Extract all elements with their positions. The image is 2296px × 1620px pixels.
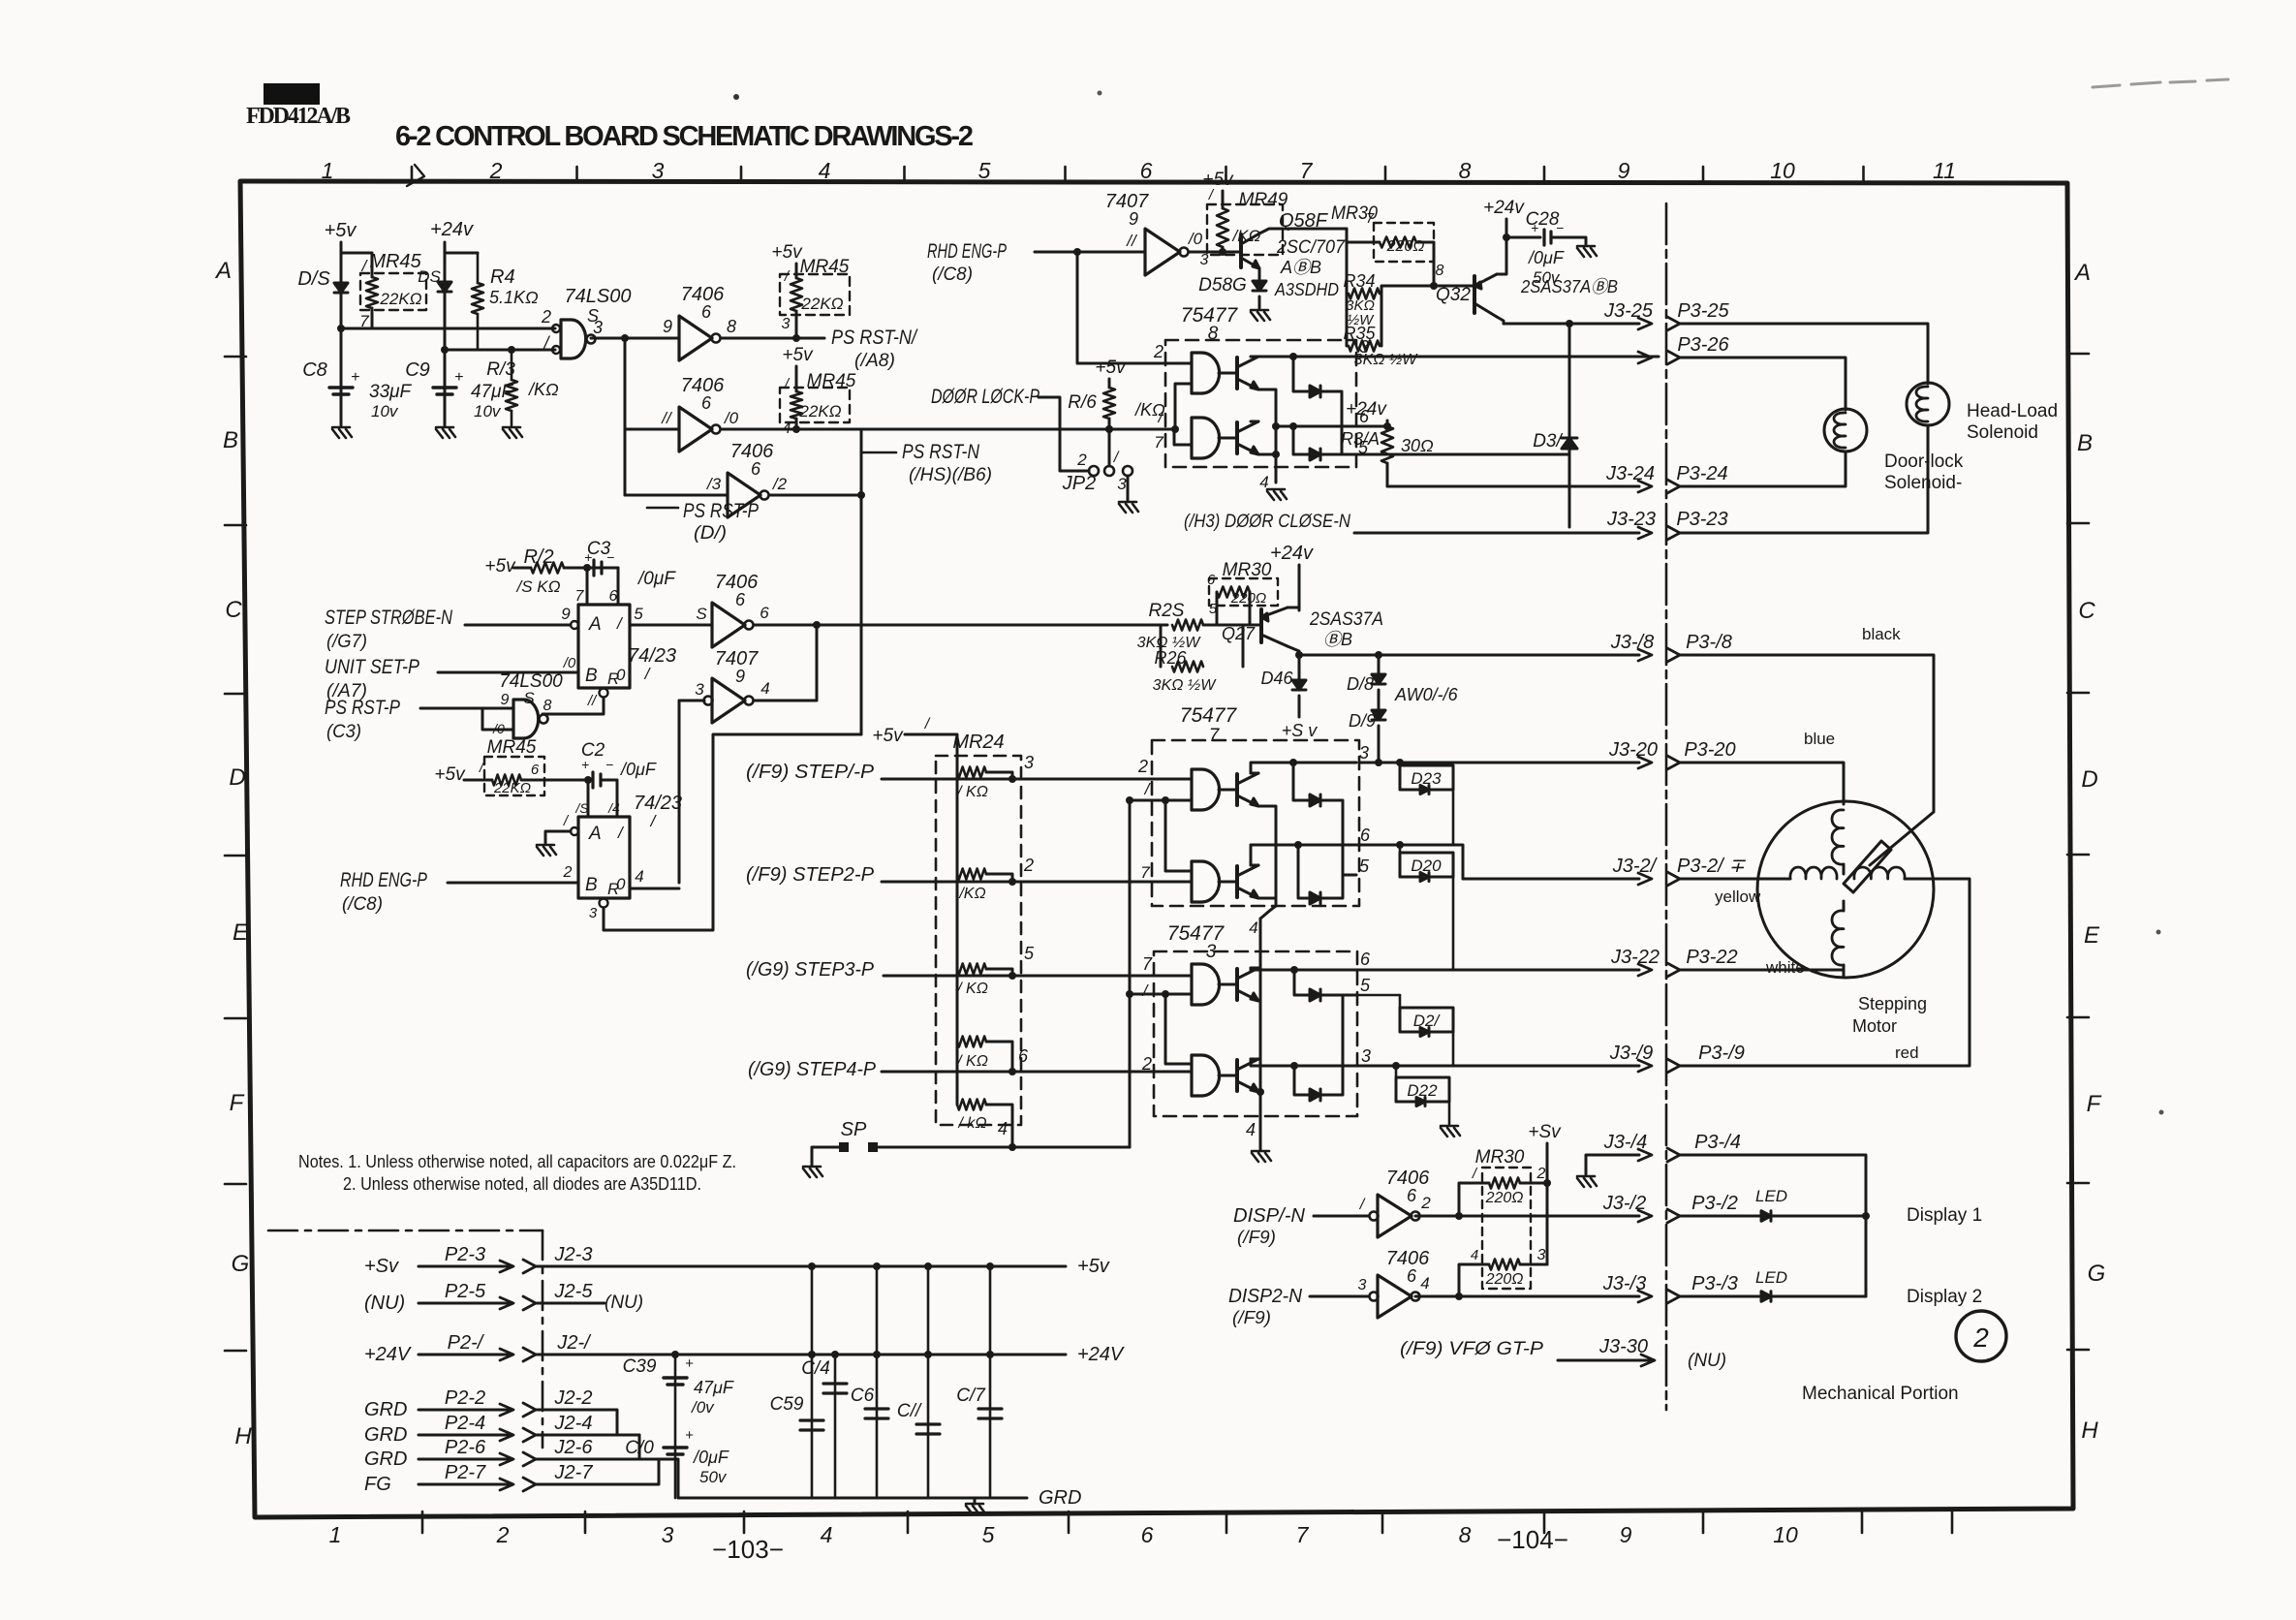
svg-text:10v: 10v xyxy=(474,402,502,421)
diode pack D21 xyxy=(1400,1008,1453,1032)
svg-text:J2-2: J2-2 xyxy=(554,1387,593,1409)
driver 75477 3 box xyxy=(1154,951,1357,1116)
svg-text:1: 1 xyxy=(322,158,334,183)
scan speck right margin 2 xyxy=(2159,1110,2164,1115)
svg-text:LED: LED xyxy=(1755,1187,1787,1205)
wire jog to gate b upper xyxy=(1165,800,1192,871)
svg-text:(C3): (C3) xyxy=(326,722,361,742)
svg-text:Q32: Q32 xyxy=(1436,285,1471,305)
ground GRD bus xyxy=(974,1498,977,1504)
inverter 7407 b (3-4) xyxy=(712,678,745,723)
wire P3-22 white to motor xyxy=(1680,970,1844,977)
svg-text:(NU): (NU) xyxy=(1688,1351,1726,1371)
svg-text:GRD: GRD xyxy=(1039,1487,1081,1509)
svg-text:6: 6 xyxy=(1141,1522,1154,1547)
svg-text:MR45: MR45 xyxy=(807,371,856,391)
svg-text:(/C8): (/C8) xyxy=(932,265,973,285)
grid tick bottom 1 xyxy=(584,1511,587,1533)
svg-text:PS RST-P: PS RST-P xyxy=(683,500,759,522)
wire P3-12 LED row xyxy=(1680,1215,1761,1218)
svg-text:9: 9 xyxy=(735,667,745,686)
svg-text:PS RST-N: PS RST-N xyxy=(902,441,980,463)
wire SP tap gate 3a xyxy=(1126,990,1133,998)
svg-text:4: 4 xyxy=(1246,1120,1256,1139)
grid tick top 6-7 xyxy=(1225,167,1227,182)
diode loop b 7477-8 xyxy=(1289,422,1297,430)
svg-text:3: 3 xyxy=(589,905,598,921)
ground J3-14 xyxy=(1586,1155,1598,1174)
grid tick top 3-4 xyxy=(740,167,743,182)
wire MR45 pin7 to bus xyxy=(371,308,374,328)
and gate 7477-8 b xyxy=(1192,418,1220,458)
svg-text:A3SDHD: A3SDHD xyxy=(1274,280,1339,299)
svg-text:−104−: −104− xyxy=(1497,1525,1568,1554)
svg-text:3: 3 xyxy=(1024,753,1034,772)
svg-text:ⒷB: ⒷB xyxy=(1323,630,1352,649)
svg-text:9: 9 xyxy=(1129,209,1138,229)
svg-text:/KΩ: /KΩ xyxy=(527,380,559,399)
svg-text:6: 6 xyxy=(760,604,769,622)
svg-text:J3-/9: J3-/9 xyxy=(1609,1043,1653,1064)
svg-text:+Sv: +Sv xyxy=(364,1256,399,1277)
wire 7407b out riser to bus xyxy=(754,625,817,701)
MR24 resistor 5 xyxy=(957,1100,986,1110)
svg-text:A: A xyxy=(2073,260,2091,286)
and gate 7477-8 a xyxy=(1192,353,1220,393)
svg-text:+5v: +5v xyxy=(872,726,904,746)
wire +5v bus xyxy=(536,1265,1066,1268)
svg-text:(/A8): (/A8) xyxy=(854,351,895,371)
svg-text:B: B xyxy=(585,666,598,686)
svg-text:P3-22: P3-22 xyxy=(1686,947,1737,968)
wire GRD merge xyxy=(536,1410,617,1435)
svg-text:6: 6 xyxy=(1360,950,1371,969)
svg-text:P3-2/ ∓: P3-2/ ∓ xyxy=(1677,856,1746,877)
grid tick left y1394 xyxy=(225,1350,246,1353)
svg-text:J3-30: J3-30 xyxy=(1598,1336,1648,1357)
svg-text:/0: /0 xyxy=(724,409,739,427)
svg-text:6: 6 xyxy=(1140,158,1153,183)
diode D23 symbol xyxy=(1420,786,1429,794)
svg-text:1: 1 xyxy=(329,1522,342,1547)
wire jog gate 3b xyxy=(1165,994,1192,1064)
node junction head-load return xyxy=(1566,320,1573,327)
net stub PS RST-N xyxy=(861,452,896,454)
svg-text:/0: /0 xyxy=(492,721,505,736)
wire J3-24 row xyxy=(1387,485,1639,488)
svg-text:+24V: +24V xyxy=(1077,1344,1125,1365)
grid tick right y1050 xyxy=(2067,1016,2089,1019)
svg-text:J3-/3: J3-/3 xyxy=(1602,1273,1646,1294)
grid tick left y1051 xyxy=(225,1017,246,1020)
svg-text:J2-7: J2-7 xyxy=(554,1462,594,1483)
svg-text:/0: /0 xyxy=(1188,230,1203,248)
svg-text:P3-25: P3-25 xyxy=(1677,300,1729,322)
svg-text:2: 2 xyxy=(496,1522,510,1547)
wire SP tap gate a xyxy=(1126,796,1133,804)
svg-text:74LS00: 74LS00 xyxy=(565,286,632,307)
svg-text:/KΩ: /KΩ xyxy=(958,886,985,902)
wire C3 pin7 stub xyxy=(583,564,591,572)
svg-text:/4: /4 xyxy=(607,800,620,816)
svg-text:C/0: C/0 xyxy=(625,1438,654,1458)
wire SP common riser xyxy=(1129,800,1132,1147)
svg-text:4: 4 xyxy=(821,1522,833,1547)
wire pin6 to R31A node xyxy=(1356,425,1387,428)
svg-text:white: white xyxy=(1765,958,1805,977)
svg-text:−: − xyxy=(1556,220,1564,235)
grid tick top 2-3 xyxy=(575,167,578,182)
diode D20 symbol xyxy=(1420,873,1429,882)
svg-text:+24v: +24v xyxy=(430,219,474,240)
grid tick right y365 xyxy=(2067,353,2089,356)
svg-text:6: 6 xyxy=(1407,1266,1417,1286)
svg-text:5: 5 xyxy=(1024,944,1035,963)
wire NAND out bus xyxy=(591,337,679,340)
svg-text:4: 4 xyxy=(783,421,791,437)
svg-text:J3-24: J3-24 xyxy=(1605,463,1655,484)
svg-text:2: 2 xyxy=(563,864,573,881)
svg-text:2SC/707: 2SC/707 xyxy=(1276,237,1346,258)
svg-text:6: 6 xyxy=(701,302,712,322)
svg-text:J3-/2: J3-/2 xyxy=(1602,1193,1646,1214)
wire Q27 emitter xyxy=(1288,607,1299,609)
svg-text:B: B xyxy=(585,875,598,895)
svg-text:J3-23: J3-23 xyxy=(1606,509,1656,530)
svg-text:D/9: D/9 xyxy=(1349,711,1376,731)
svg-text:/ kΩ: / kΩ xyxy=(957,1115,986,1132)
grid tick top 9-10 xyxy=(1702,167,1705,182)
svg-text:22KΩ: 22KΩ xyxy=(493,780,531,796)
wire DISP1-N xyxy=(1314,1215,1369,1218)
svg-text:P2-7: P2-7 xyxy=(445,1462,486,1483)
MR24 resistor 3 xyxy=(957,964,986,975)
motor coil right xyxy=(1854,867,1905,879)
grid tick bottom 6 xyxy=(1381,1511,1384,1533)
inverter 7406 a (9-8) xyxy=(679,316,712,360)
svg-text:5: 5 xyxy=(982,1522,995,1547)
boundary dash-dot mechanical xyxy=(268,1230,543,1232)
svg-text:blue: blue xyxy=(1804,730,1835,748)
circled 2 sheet mark xyxy=(1956,1311,2006,1361)
svg-text:+24v: +24v xyxy=(1270,543,1314,564)
resistor network MR30 a 220 xyxy=(1347,241,1380,244)
wire +5v to MR45 b xyxy=(795,264,798,278)
wire Q27 collector to J3-18 xyxy=(1288,646,1299,655)
svg-text:R: R xyxy=(607,670,619,688)
and gate 7477-7 a xyxy=(1192,769,1220,810)
svg-text:C: C xyxy=(225,597,242,623)
wire GRD bus xyxy=(639,1459,1027,1498)
svg-text:(/F9) VFØ GT-P: (/F9) VFØ GT-P xyxy=(1400,1339,1543,1359)
svg-text:Solenoid: Solenoid xyxy=(1967,422,2038,443)
diode D31 xyxy=(1562,438,1577,449)
svg-text:R2S: R2S xyxy=(1149,601,1185,621)
svg-text:yellow: yellow xyxy=(1715,888,1761,906)
MR30c resistor upper 220 xyxy=(1455,1212,1463,1220)
grid tick right y1393 xyxy=(2067,1349,2089,1352)
svg-text:2: 2 xyxy=(1153,342,1164,361)
MR24 resistor 1 xyxy=(957,767,986,778)
motor rotor bar xyxy=(1844,841,1891,892)
svg-text:2: 2 xyxy=(1023,856,1034,875)
svg-text:30Ω: 30Ω xyxy=(1401,436,1434,455)
wire 74123b reset to PS RST-P riser xyxy=(604,734,861,930)
svg-text:+24v: +24v xyxy=(1483,198,1525,218)
svg-text:8: 8 xyxy=(1208,324,1219,344)
scan artifact dashes top right xyxy=(2093,79,2228,87)
svg-text:AⒷB: AⒷB xyxy=(1280,258,1321,277)
svg-text:9: 9 xyxy=(561,605,571,623)
wire MR45 b to net xyxy=(795,311,798,338)
wire DISP1 out row J3-12 xyxy=(1415,1215,1639,1218)
svg-text:G: G xyxy=(2088,1261,2106,1287)
wire 7407b input from 74123b xyxy=(679,700,704,702)
svg-text:P3-20: P3-20 xyxy=(1684,739,1735,761)
wire jog to gate1 lower input xyxy=(1175,384,1192,429)
svg-text:P2-/: P2-/ xyxy=(448,1332,485,1354)
svg-text:D46: D46 xyxy=(1260,669,1293,688)
svg-text:B: B xyxy=(2077,430,2093,456)
wire PS RST-N corner riser xyxy=(860,429,863,734)
grid tick bottom 0 xyxy=(421,1511,424,1533)
svg-text:5: 5 xyxy=(634,605,643,623)
svg-text:+: + xyxy=(454,369,463,386)
svg-text:+5v: +5v xyxy=(782,345,814,365)
svg-text:P3-26: P3-26 xyxy=(1677,334,1729,356)
svg-text:(/C8): (/C8) xyxy=(342,894,383,915)
svg-text:22KΩ: 22KΩ xyxy=(800,295,843,313)
door-lock solenoid xyxy=(1824,409,1867,452)
wire reset to nand b out xyxy=(543,698,604,714)
svg-text:DS: DS xyxy=(418,267,441,286)
wire emitter b 7477-7 xyxy=(1258,897,1276,900)
svg-text:6: 6 xyxy=(1207,572,1216,588)
svg-text:Door-lock: Door-lock xyxy=(1884,452,1964,472)
wire J3-21 row xyxy=(1463,878,1639,881)
svg-text:MR30: MR30 xyxy=(1475,1147,1525,1168)
wire D46 to +5v xyxy=(1298,696,1301,717)
svg-text:2: 2 xyxy=(1972,1323,1989,1353)
grid tick top 1-2 xyxy=(411,167,414,182)
svg-text:(/HS)(/B6): (/HS)(/B6) xyxy=(909,465,992,485)
wire MR30b risers xyxy=(1216,592,1219,625)
wire P3-14 to LED rail xyxy=(1680,1155,1866,1296)
ground D22 xyxy=(1441,1126,1460,1137)
svg-text:Solenoid-: Solenoid- xyxy=(1884,473,1962,493)
wire P3-21 yellow to motor xyxy=(1680,878,1790,881)
svg-text:3: 3 xyxy=(652,158,665,183)
svg-text:+: + xyxy=(685,1355,694,1372)
svg-text:220Ω: 220Ω xyxy=(1485,1271,1524,1288)
svg-text:C8: C8 xyxy=(302,359,327,381)
svg-text:E: E xyxy=(2084,922,2100,949)
svg-text:4: 4 xyxy=(1249,919,1257,937)
svg-text:(D/): (D/) xyxy=(694,523,727,544)
svg-text:S: S xyxy=(696,605,707,623)
svg-text:Stepping: Stepping xyxy=(1858,994,1927,1013)
diode D46 xyxy=(1298,655,1301,678)
svg-text:(/H3) DØØR CLØSE-N: (/H3) DØØR CLØSE-N xyxy=(1184,512,1350,532)
svg-text:A: A xyxy=(588,614,602,635)
svg-text:6: 6 xyxy=(1407,1186,1417,1205)
svg-text:5: 5 xyxy=(1359,857,1370,876)
MR24 resistor 4 xyxy=(957,1037,986,1047)
svg-text:3: 3 xyxy=(1200,252,1209,268)
svg-text:7: 7 xyxy=(1296,1522,1310,1547)
wire 7477-7 pin6 rail xyxy=(1251,845,1463,879)
svg-text:+: + xyxy=(351,369,359,386)
svg-text:9: 9 xyxy=(663,317,672,336)
svg-text:5: 5 xyxy=(1360,976,1371,995)
svg-text:J3-/4: J3-/4 xyxy=(1603,1132,1647,1153)
grid tick right y882 xyxy=(2067,854,2089,857)
svg-text:C/4: C/4 xyxy=(801,1358,830,1379)
grid tick right y540 xyxy=(2067,522,2089,525)
svg-text:2: 2 xyxy=(1420,1194,1431,1212)
svg-text:3: 3 xyxy=(1117,475,1127,493)
svg-text:+5v: +5v xyxy=(434,764,466,785)
ground C9 xyxy=(436,427,455,438)
svg-text:/0: /0 xyxy=(563,655,576,671)
grid tick bottom 7 xyxy=(1543,1511,1546,1533)
nand gate U-74LS00 a xyxy=(552,325,560,332)
diode pack D22 xyxy=(1396,1077,1449,1102)
grid tick left y542 xyxy=(225,524,246,527)
pin 1 74123b grounded xyxy=(571,827,578,835)
svg-text:75477: 75477 xyxy=(1180,704,1238,727)
svg-text:+: + xyxy=(584,549,592,565)
and gate 7477-3 a xyxy=(1192,964,1220,1005)
svg-text:/ KΩ: / KΩ xyxy=(956,784,988,800)
pin 3 74123b reset xyxy=(600,899,608,908)
svg-text:50v: 50v xyxy=(1533,268,1561,287)
head-load solenoid xyxy=(1907,383,1949,425)
wire emitter to ground rail xyxy=(1258,389,1276,483)
svg-text:P3-/8: P3-/8 xyxy=(1686,632,1732,653)
resistor R31A 30ohm xyxy=(1383,422,1391,430)
svg-text:+: + xyxy=(685,1427,694,1444)
svg-text:R34: R34 xyxy=(1343,271,1375,291)
svg-text:F: F xyxy=(230,1090,245,1116)
wire bus to NAND pin2 xyxy=(341,327,555,330)
svg-text:8: 8 xyxy=(1436,263,1444,279)
node junction inverter chain xyxy=(621,334,629,342)
svg-text:9: 9 xyxy=(501,692,510,708)
svg-text:MR45: MR45 xyxy=(800,257,850,277)
svg-text:3: 3 xyxy=(1537,1247,1546,1263)
grid tick bottom 9 xyxy=(1861,1511,1864,1533)
wire R16 to net xyxy=(1108,419,1111,466)
svg-text:6: 6 xyxy=(609,588,618,605)
svg-text:/S: /S xyxy=(574,800,589,816)
ground C28 xyxy=(1577,246,1597,257)
MR24 stub r1 xyxy=(986,772,1012,779)
svg-text:3: 3 xyxy=(695,680,704,699)
transistor 7477-3 b xyxy=(1219,1075,1235,1077)
svg-text:MR45: MR45 xyxy=(487,737,537,758)
wire pin5 7477-8 xyxy=(1342,453,1356,456)
wire riser to 7477-8 gate1 xyxy=(1077,252,1192,363)
svg-text:(/F9) STEP/-P: (/F9) STEP/-P xyxy=(746,762,875,783)
wire C28 to ground xyxy=(1551,237,1586,244)
inverter 7406 c (13-12) xyxy=(728,473,760,517)
wire +5v to MR45 c xyxy=(795,366,798,391)
stepping motor circle xyxy=(1757,801,1934,978)
svg-text:3: 3 xyxy=(1206,942,1217,962)
svg-text:J2-6: J2-6 xyxy=(554,1437,594,1458)
svg-text:33μF: 33μF xyxy=(369,382,413,402)
svg-text:9: 9 xyxy=(1620,1522,1632,1547)
svg-text:2: 2 xyxy=(1536,1166,1546,1182)
svg-text:10: 10 xyxy=(1770,158,1795,183)
wire DISP2 out row J3-13 xyxy=(1415,1295,1639,1298)
svg-text:DISP2-N: DISP2-N xyxy=(1228,1286,1303,1307)
svg-text:+S v: +S v xyxy=(1282,721,1319,740)
svg-text:C: C xyxy=(2078,598,2095,624)
svg-text:2SAS37A: 2SAS37A xyxy=(1309,609,1383,630)
svg-text:+Sv: +Sv xyxy=(1528,1122,1562,1142)
svg-text:/0μF: /0μF xyxy=(692,1448,729,1467)
grid tick top 5-6 xyxy=(1064,167,1067,182)
grid tick bottom 5 xyxy=(1226,1511,1228,1533)
svg-text:GRD: GRD xyxy=(364,1449,407,1470)
wire +24v rail xyxy=(444,242,447,425)
svg-text:P3-/2: P3-/2 xyxy=(1691,1193,1738,1214)
svg-text:2: 2 xyxy=(1141,1054,1152,1074)
grid tick hook near 1 xyxy=(407,165,424,186)
svg-text:11: 11 xyxy=(1933,158,1956,183)
grid tick top 10-11 xyxy=(1862,167,1865,182)
svg-text:5.1KΩ: 5.1KΩ xyxy=(489,288,539,307)
svg-text:/ KΩ: / KΩ xyxy=(956,981,988,997)
svg-text:R26: R26 xyxy=(1154,648,1187,668)
svg-text:P2-5: P2-5 xyxy=(445,1281,486,1302)
wire J3-19 row xyxy=(1356,1065,1639,1068)
svg-text:H: H xyxy=(234,1423,252,1449)
diode D58G xyxy=(1253,281,1266,291)
svg-text:22KΩ: 22KΩ xyxy=(379,290,421,308)
wire MR45d to C2 xyxy=(521,779,588,782)
node junction +24 rail lower bus xyxy=(441,346,449,354)
diode D15 xyxy=(334,283,348,293)
svg-text:Notes. 1. Unless otherwise n: Notes. 1. Unless otherwise noted, all ca… xyxy=(298,1152,736,1171)
wire PS RST-N to 7477 pin7 jog xyxy=(1105,429,1192,445)
diode pack D20 xyxy=(1400,853,1453,877)
transistor 7477-3 a xyxy=(1219,983,1235,986)
svg-text:E: E xyxy=(233,919,249,946)
svg-text:GRD: GRD xyxy=(364,1399,407,1420)
svg-text:/S KΩ: /S KΩ xyxy=(515,577,560,596)
svg-text:G: G xyxy=(232,1251,250,1277)
diode loop a 7477-3 xyxy=(1290,966,1298,974)
svg-text:+: + xyxy=(1531,220,1538,235)
svg-text:2: 2 xyxy=(541,307,551,327)
wire lower bus to NAND pin1 xyxy=(445,349,555,352)
svg-text:3: 3 xyxy=(662,1522,674,1547)
svg-text:C9: C9 xyxy=(405,359,430,381)
svg-text:7: 7 xyxy=(1142,954,1153,974)
svg-text:Display 2: Display 2 xyxy=(1907,1287,1982,1307)
svg-text:/3: /3 xyxy=(706,475,722,493)
wire tap to inverter 3 xyxy=(625,494,728,497)
svg-text:50v: 50v xyxy=(699,1468,728,1486)
svg-text:C/7: C/7 xyxy=(956,1386,986,1406)
svg-text:Motor: Motor xyxy=(1852,1016,1897,1036)
svg-text:2. Unless otherwise noted, al: 2. Unless otherwise noted, all diodes ar… xyxy=(343,1174,701,1194)
ground 74123b A input xyxy=(537,845,556,856)
svg-text:4: 4 xyxy=(1420,1274,1429,1293)
